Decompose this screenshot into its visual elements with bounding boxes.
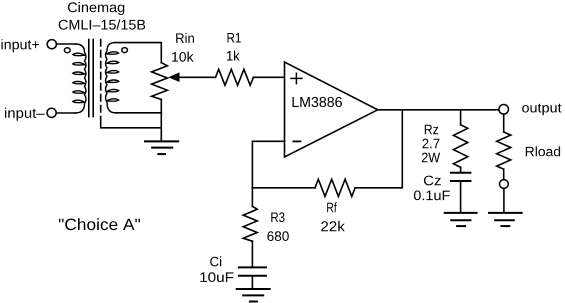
input- terminal [47,108,56,117]
Rz label [422,125,440,163]
wire R1 to op-amp [253,76,284,78]
wire inverting input to feedback node [252,141,284,188]
wire output terminal to Rload [503,114,505,132]
output label [522,104,561,116]
Rf label [321,202,345,231]
resistor Rf [315,179,355,196]
op-amp U1 minus input sign [293,140,300,142]
transformer T1 label "Cinemag CMLI-15/15B" [59,2,146,30]
op-amp U1 label [293,97,342,107]
ground G4 [489,213,522,226]
input+ terminal [47,40,56,49]
wire secondary bottom to Rin bottom [115,112,161,114]
capacitor Cz [460,167,462,172]
op-amp U1 LM3886 [285,62,378,157]
R3 label [267,212,288,241]
transformer T1 core [88,40,90,117]
polarity dot secondary [122,48,128,53]
resistor R3 [243,188,257,267]
transformer T1 primary winding [73,44,86,113]
Ci label [200,256,233,282]
Cz label [414,176,450,201]
output terminal [499,105,509,115]
resistor Rz [453,125,467,168]
wire shield to ground [101,117,162,128]
wire secondary top to Rin top [115,43,161,63]
transformer T1 electrostatic shield (dashed) [100,40,102,118]
R1 label [227,33,241,61]
wire input+ to primary [56,43,75,45]
wire input- to primary [56,112,75,114]
ground G1 [145,141,178,154]
ground G2 [237,289,270,302]
caption "Choice A" [59,218,140,230]
Rin label [172,33,194,62]
polarity dot primary [64,48,70,53]
wire feedback node to Rf [252,187,315,189]
Rload bottom terminal [500,180,509,189]
resistor Rload [497,132,511,169]
op-amp U1 plus input sign [291,73,302,83]
ground G3 [445,213,477,226]
capacitor Ci [239,267,266,275]
potentiometer Rin wiper arrow [168,72,179,82]
wire Rin bottom to ground [160,99,162,141]
potentiometer Rin [152,63,168,100]
resistor R1 [216,69,254,85]
input+ label [2,39,40,52]
wire op-amp output to output terminal [378,109,499,111]
input- label [5,108,45,121]
transformer T1 secondary winding [106,43,119,113]
wire output node down to Rz [460,110,462,125]
Rload label [526,146,560,156]
wire Rload bottom terminal to ground [503,188,505,213]
wire Rf to output node [355,110,402,188]
